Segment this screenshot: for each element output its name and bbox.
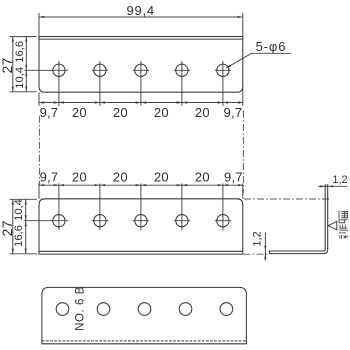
svg-text:20: 20 xyxy=(113,105,128,120)
svg-text:20: 20 xyxy=(113,170,128,185)
middle left edge extension xyxy=(38,183,40,198)
hole H1 middle horizontal centerline xyxy=(24,220,68,222)
hole H3 top view xyxy=(135,64,147,76)
svg-text:9,7: 9,7 xyxy=(223,105,242,120)
svg-text:5-φ6: 5-φ6 xyxy=(256,39,287,54)
dimension line 1,2 flange xyxy=(318,185,325,187)
svg-text:10,4: 10,4 xyxy=(14,67,26,89)
hole H1 middle vertical centerline xyxy=(58,183,60,230)
svg-text:9,7: 9,7 xyxy=(40,170,59,185)
hole H5 middle view xyxy=(217,215,229,227)
hole H5 bottom view xyxy=(220,303,233,316)
hole H4 top view xyxy=(176,64,188,76)
hole H1 top view xyxy=(53,64,65,76)
svg-text:20: 20 xyxy=(72,105,87,120)
top view bend line xyxy=(39,38,243,40)
marking text kanji koku xyxy=(339,230,347,238)
svg-text:99,4: 99,4 xyxy=(126,3,155,18)
hole H1 bottom view xyxy=(56,303,69,316)
right edge extension line top xyxy=(242,13,244,37)
svg-text:NO. 6 B: NO. 6 B xyxy=(74,286,86,331)
hole H3 middle vertical centerline xyxy=(140,183,142,230)
dimension line 27 middle xyxy=(12,199,14,254)
hole H4 middle horizontal centerline xyxy=(174,220,190,222)
left edge extension line bottom xyxy=(38,92,40,106)
marking face triangle xyxy=(328,221,337,229)
dimension line hole spacing middle view xyxy=(39,184,243,186)
hole H2 horizontal centerline xyxy=(92,69,108,71)
svg-text:20: 20 xyxy=(154,105,169,120)
hole H5 vertical centerline xyxy=(222,61,224,106)
hole H5 horizontal centerline xyxy=(215,69,231,71)
hole H3 bottom view xyxy=(138,303,151,316)
svg-text:9,7: 9,7 xyxy=(224,170,243,185)
hole H4 vertical centerline xyxy=(181,61,183,106)
hole H4 middle vertical centerline xyxy=(181,183,183,230)
hole H5 top view xyxy=(217,64,229,76)
extension line 27 top xyxy=(10,36,37,38)
middle view plate outline xyxy=(39,199,243,254)
svg-text:9,7: 9,7 xyxy=(40,105,59,120)
svg-text:20: 20 xyxy=(154,170,169,185)
hole H2 top view xyxy=(94,64,106,76)
middle right edge extension xyxy=(242,183,244,198)
dimension line 27 xyxy=(12,37,14,92)
middle view bend line xyxy=(39,250,243,252)
dimension line 10.4 and 16.6 middle xyxy=(25,199,27,254)
bottom view bend dashed line xyxy=(42,340,247,342)
hole H3 vertical centerline xyxy=(140,61,142,106)
extension line 27 middle bottom xyxy=(10,253,38,255)
extension line 27 middle top xyxy=(10,198,38,200)
hole H3 middle view xyxy=(135,215,147,227)
hole H2 middle vertical centerline xyxy=(99,183,101,230)
bottom view plate outline xyxy=(42,287,247,343)
hole H4 bottom view xyxy=(179,303,192,316)
arrows hole spacing top view xyxy=(39,101,44,103)
svg-text:1,2: 1,2 xyxy=(251,231,263,246)
arrows hole spacing middle view xyxy=(39,184,44,186)
side view L profile xyxy=(270,186,328,253)
dimension line hole spacing top view xyxy=(39,102,243,104)
right edge extension line bottom xyxy=(242,87,244,106)
svg-text:16,6: 16,6 xyxy=(14,41,26,63)
side view flange extension lines xyxy=(324,184,326,186)
svg-text:20: 20 xyxy=(195,170,210,185)
hole H3 middle horizontal centerline xyxy=(133,220,149,222)
svg-text:16,6: 16,6 xyxy=(13,225,25,247)
svg-text:1,2: 1,2 xyxy=(332,174,347,186)
hole H5 middle vertical centerline xyxy=(222,183,224,230)
dimension line 99.4 xyxy=(39,16,243,18)
marking text kanji in xyxy=(339,220,347,228)
svg-text:20: 20 xyxy=(72,170,87,185)
chain line plate bottom xyxy=(244,253,269,255)
side view bend axis chain line xyxy=(244,198,330,200)
top view plate outline xyxy=(39,37,243,93)
marking text kanji men xyxy=(339,210,347,218)
chain line left connector xyxy=(38,116,40,186)
hole H1 vertical centerline xyxy=(58,61,60,106)
svg-text:27: 27 xyxy=(0,57,15,73)
hole H2 vertical centerline xyxy=(99,61,101,106)
dimension line 16.6 and 10.4 xyxy=(25,37,27,92)
hole H4 middle view xyxy=(176,215,188,227)
svg-text:10,4: 10,4 xyxy=(13,199,25,221)
dimension line 1,2 plate xyxy=(264,233,266,261)
hole H4 horizontal centerline xyxy=(174,69,190,71)
hole H1 middle view xyxy=(53,215,65,227)
svg-text:20: 20 xyxy=(195,105,210,120)
left edge extension line top xyxy=(38,13,40,37)
extension line 27 bottom xyxy=(10,91,37,93)
hole H1 horizontal centerline xyxy=(25,69,69,71)
hole H2 middle view xyxy=(94,215,106,227)
hole H3 horizontal centerline xyxy=(133,69,149,71)
chain line right connector xyxy=(242,111,244,193)
hole H2 bottom view xyxy=(97,303,110,316)
hole H5 middle horizontal centerline xyxy=(215,220,231,222)
hole H2 middle horizontal centerline xyxy=(92,220,108,222)
label 5-phi6 leader xyxy=(252,52,292,54)
